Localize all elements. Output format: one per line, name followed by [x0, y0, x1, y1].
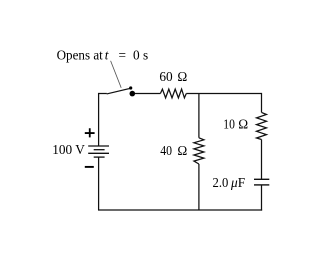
resistor 10 ohm (vertical zigzag): [257, 112, 267, 139]
battery plate 4 short (bottom, -): [94, 156, 105, 158]
switch blade: [107, 88, 131, 94]
wire left branch lower (battery bottom to bottom wire): [98, 157, 100, 210]
wire middle branch lower (40-ohm resistor to bottom wire): [198, 164, 200, 210]
svg-text:60Ω: 60Ω: [159, 69, 187, 84]
wire resistor to top-right corner: [186, 93, 261, 95]
battery plus sign: [85, 128, 95, 137]
resistor 60 ohm (horizontal zigzag): [160, 89, 186, 98]
svg-text:100 V: 100 V: [52, 142, 85, 157]
wire top-left segment (corner to switch pivot): [99, 93, 107, 95]
wire right branch middle (10-ohm resistor to capacitor): [261, 140, 263, 180]
switch blade-end dot: [129, 86, 132, 89]
leader line from label to switch: [111, 61, 122, 88]
capacitor 2.0uF bottom plate: [254, 184, 269, 186]
battery minus sign: [85, 166, 94, 168]
wire bottom horizontal: [98, 209, 262, 211]
battery plate 3 long: [88, 152, 109, 154]
resistor 40 ohm (vertical zigzag): [194, 138, 204, 164]
battery plate 1 long (top, +): [88, 145, 109, 147]
switch contact dot: [130, 91, 136, 97]
capacitor 2.0uF top plate: [254, 178, 269, 180]
svg-text:40Ω: 40Ω: [160, 143, 187, 158]
wire right branch upper (top-right corner to 10-ohm resistor): [261, 93, 263, 113]
wire middle branch upper (top wire to 40-ohm resistor): [198, 94, 200, 138]
wire right branch lower (capacitor to bottom wire): [261, 185, 263, 211]
svg-text:Opens att=0 s: Opens att=0 s: [57, 48, 149, 63]
wire left branch upper (corner to battery top): [98, 93, 100, 146]
svg-text:10Ω: 10Ω: [223, 117, 248, 132]
svg-text:2.0μF: 2.0μF: [213, 175, 246, 190]
battery plate 2 short: [94, 149, 105, 151]
wire switch-to-resistor segment: [132, 93, 160, 95]
